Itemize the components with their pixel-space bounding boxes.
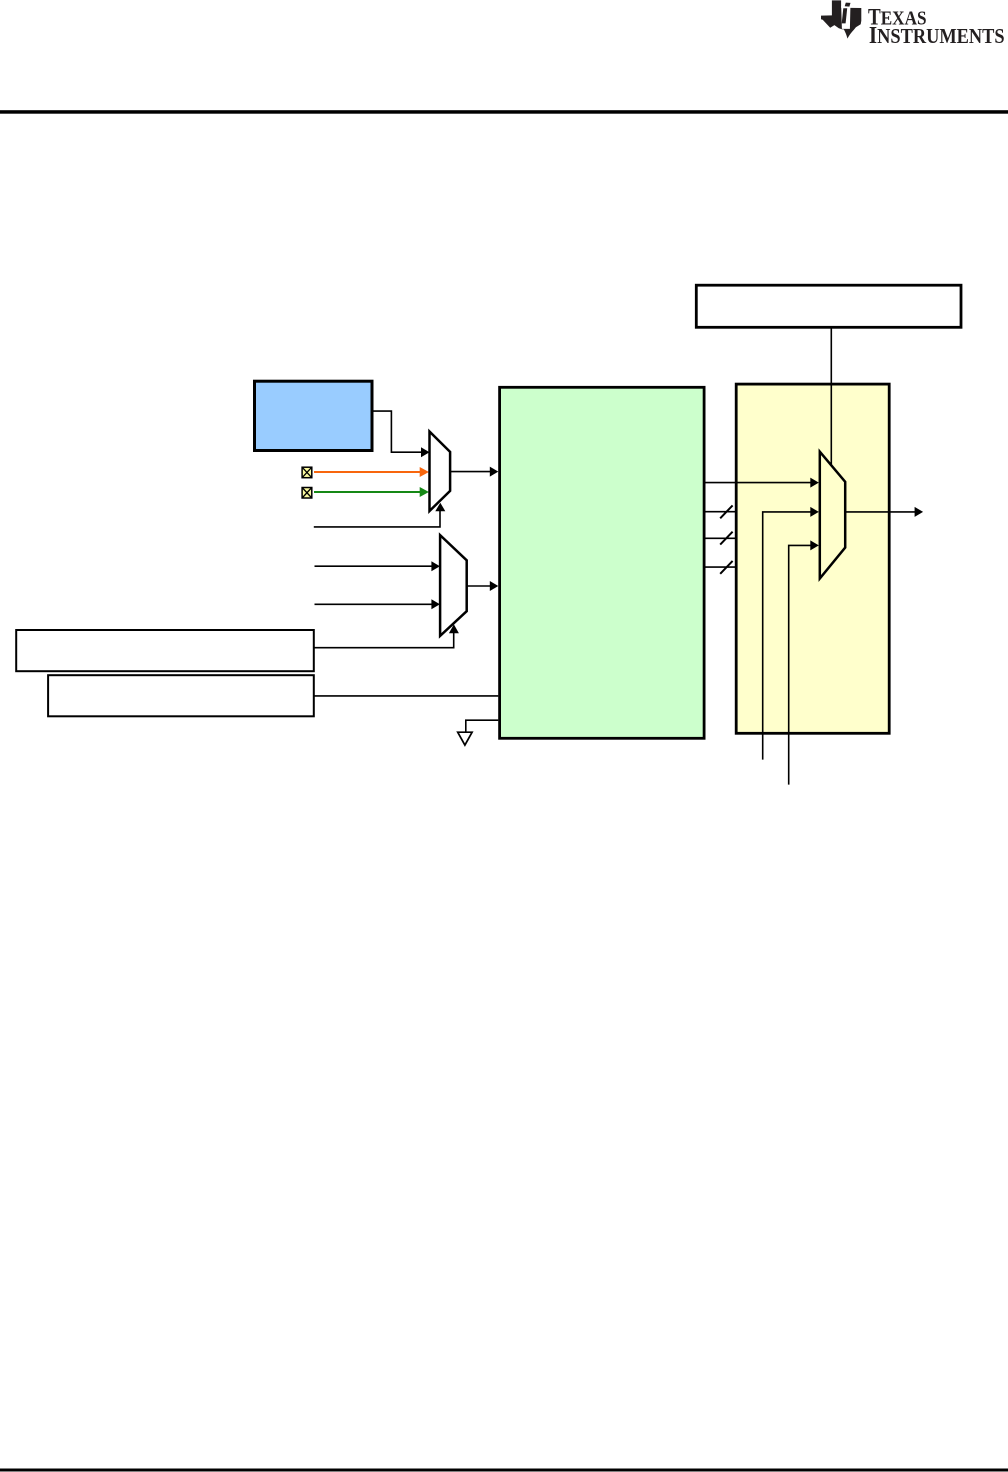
mux U3 bbox=[820, 452, 845, 579]
green block bbox=[500, 387, 704, 738]
blue block bbox=[255, 381, 373, 450]
wire green block to mux U3 input 1 bbox=[704, 482, 812, 484]
bus line 3 green to yellow with width slash bbox=[704, 566, 736, 568]
top register box bbox=[696, 285, 961, 327]
footer rule bbox=[0, 1469, 1008, 1472]
wire label box L2 to green block bbox=[314, 695, 499, 697]
clock source symbol X2 bbox=[302, 488, 312, 499]
TI logo wordmark TEXAS INSTRUMENTS bbox=[868, 4, 1005, 49]
wire to mux U3 input 3 bbox=[789, 545, 812, 784]
svg-text:INSTRUMENTS: INSTRUMENTS bbox=[869, 22, 1005, 49]
wire to mux U3 input 2 bbox=[763, 512, 812, 760]
clock source symbol X1 bbox=[302, 467, 312, 478]
bus line 1 green to yellow with width slash bbox=[704, 511, 736, 513]
label box L1 bbox=[16, 630, 314, 671]
output wire from mux U3 bbox=[845, 511, 915, 513]
green wire X2 to mux U1 bbox=[314, 491, 421, 493]
mux U2 bbox=[440, 535, 467, 636]
yellow block bbox=[736, 384, 889, 733]
label box L2 bbox=[48, 675, 314, 716]
wire input B to mux U2 bbox=[315, 603, 433, 605]
TI logo Texas-state mark bbox=[821, 0, 861, 38]
bus line 2 green to yellow with width slash bbox=[704, 537, 736, 539]
wire mux U1 output to green block bbox=[450, 471, 491, 473]
ground wire bbox=[466, 720, 499, 732]
mux U1 select wire bbox=[314, 510, 440, 527]
wire input A to mux U2 bbox=[315, 565, 433, 567]
wire from top register box down to mux U3 bbox=[830, 327, 832, 466]
orange wire X1 to mux U1 bbox=[314, 471, 421, 473]
wire mux U2 output to green block bbox=[467, 585, 491, 587]
header rule bbox=[0, 110, 1008, 114]
mux U1 bbox=[430, 432, 451, 512]
wire label box L1 to mux U2 select bbox=[314, 631, 454, 648]
wire blue block to mux U1 bbox=[373, 411, 422, 452]
ground symbol bbox=[458, 732, 472, 745]
